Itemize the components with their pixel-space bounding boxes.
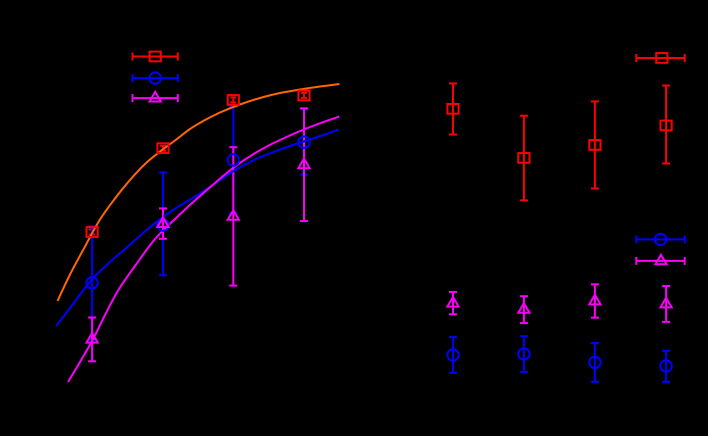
right red errorbar 4 — [662, 86, 670, 164]
left red square marker 2 — [157, 143, 168, 153]
right magenta triangle marker 2 — [518, 303, 529, 313]
right legend red errorbar line — [636, 54, 684, 62]
right magenta errorbar 1 — [449, 292, 457, 314]
magenta fit curve — [68, 117, 339, 383]
right red square marker 3 — [589, 140, 600, 150]
right blue circle marker 2 — [518, 348, 529, 359]
left legend magenta triangle — [150, 92, 161, 102]
left legend blue errorbar line — [133, 74, 178, 82]
right magenta triangle marker 3 — [589, 295, 600, 305]
right red errorbar 3 — [591, 101, 599, 188]
right red square marker 1 — [447, 104, 458, 114]
right red errorbar 1 — [449, 83, 457, 134]
left legend magenta errorbar line — [133, 94, 178, 102]
right blue circle marker 3 — [589, 357, 600, 368]
right legend magenta triangle — [655, 255, 666, 265]
left blue errorbar 3 — [229, 107, 237, 214]
right legend red square — [656, 53, 667, 63]
left blue circle marker 3 — [228, 154, 239, 165]
left red errorbar 3 — [230, 97, 236, 102]
left blue errorbar 1 — [88, 226, 96, 339]
left legend red square — [150, 52, 161, 62]
left magenta triangle marker 3 — [228, 210, 239, 220]
right blue errorbar 2 — [520, 336, 528, 372]
left red square marker 1 — [87, 227, 98, 237]
left magenta errorbar 4 — [300, 108, 308, 221]
right magenta errorbar 3 — [591, 284, 599, 317]
right blue errorbar 1 — [449, 337, 457, 373]
left legend red errorbar line — [133, 53, 178, 61]
left blue circle marker 2 — [157, 219, 168, 230]
right red square marker 2 — [518, 153, 529, 163]
right legend blue errorbar line — [636, 235, 684, 243]
right blue circle marker 4 — [660, 360, 671, 371]
left magenta triangle marker 4 — [298, 159, 309, 169]
left blue errorbar 2 — [159, 173, 167, 276]
left red errorbar 1 — [89, 230, 95, 235]
right blue errorbar 3 — [591, 343, 599, 382]
blue fit curve — [56, 130, 339, 327]
left magenta errorbar 1 — [88, 318, 96, 362]
right blue errorbar 4 — [662, 351, 670, 382]
left magenta errorbar 3 — [229, 147, 237, 285]
right magenta triangle marker 1 — [447, 297, 458, 307]
right blue circle marker 1 — [447, 349, 458, 360]
right magenta errorbar 4 — [662, 286, 670, 322]
left legend blue circle — [150, 72, 161, 83]
left red square marker 4 — [298, 91, 309, 101]
left blue errorbar 4 — [300, 109, 308, 175]
right legend blue circle — [655, 234, 666, 245]
orange fit curve — [58, 84, 340, 301]
left blue circle marker 4 — [298, 137, 309, 148]
left red errorbar 2 — [160, 146, 166, 151]
right magenta errorbar 2 — [520, 296, 528, 323]
left red errorbar 4 — [301, 93, 307, 98]
left red square marker 3 — [228, 95, 239, 105]
right magenta triangle marker 4 — [661, 298, 672, 308]
left magenta triangle marker 1 — [87, 333, 98, 343]
left magenta errorbar 2 — [159, 208, 167, 238]
left magenta triangle marker 2 — [157, 217, 168, 227]
right legend magenta errorbar line — [636, 257, 684, 265]
right red square marker 4 — [661, 121, 672, 131]
right red errorbar 2 — [520, 116, 528, 201]
left blue circle marker 1 — [86, 277, 97, 288]
